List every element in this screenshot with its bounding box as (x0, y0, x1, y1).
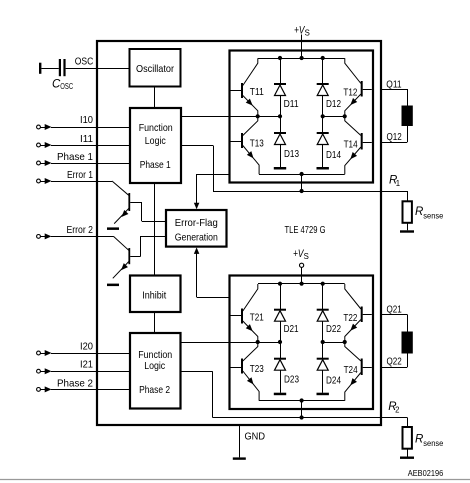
wire function logic 1 current sense (181, 146, 214, 192)
wire bridge 2 to error-flag generation with arrow (194, 247, 230, 297)
svg-text:Error-Flag: Error-Flag (175, 218, 218, 229)
OSC terminal bar (39, 63, 41, 74)
transistor error 2 output (113, 236, 130, 278)
wire load to Q22 (407, 354, 409, 368)
diode D21 (274, 284, 299, 342)
wire base of error transistor 1 to error-flag block (130, 202, 166, 222)
wire bridge 1 to error-flag generation with arrow (194, 174, 230, 209)
wire inhibit to function logic 2 (154, 312, 156, 333)
diode D12 (317, 58, 342, 116)
svg-text:T11: T11 (250, 87, 264, 98)
IC boundary box (97, 41, 381, 425)
transistor T13 (231, 116, 265, 174)
wire sense line R1 (213, 189, 407, 193)
wire function logic 1 to inhibit (154, 183, 156, 276)
svg-text:S: S (304, 252, 309, 261)
label R2 pin (388, 401, 399, 415)
svg-text:OSC: OSC (60, 82, 73, 91)
motor winding load 1 (402, 106, 413, 127)
resistor Rsense 2 (403, 427, 412, 449)
svg-text:I11: I11 (80, 134, 93, 145)
wire R1 to sense resistor (407, 191, 409, 201)
svg-text:Logic: Logic (144, 361, 165, 372)
label R1 pin (389, 174, 400, 188)
transistor T14 (344, 116, 372, 174)
input terminal Error 1 (37, 179, 41, 183)
diode D23 (274, 342, 299, 395)
input terminal I11 (37, 143, 41, 147)
svg-text:Oscillator: Oscillator (136, 64, 175, 75)
ground bar GND (233, 457, 246, 459)
emitter bar of error 2 transistor (107, 284, 119, 287)
wire load to Q12 (407, 126, 409, 142)
wire +Vs terminal to bridge 2 supply rail (301, 267, 303, 283)
label +Vs top (294, 24, 310, 37)
wire output Q22 (382, 367, 407, 369)
wire OSC into oscillator (66, 68, 130, 70)
svg-text:GND: GND (245, 431, 266, 442)
function logic phase 2 block (130, 333, 181, 409)
svg-text:T23: T23 (250, 364, 264, 375)
transistor T21 (231, 284, 265, 342)
svg-text:Q12: Q12 (387, 132, 403, 143)
wire function logic 1 to bridge 1 output node (181, 116, 258, 118)
diode D22 (317, 284, 342, 342)
motor winding load 2 (402, 332, 413, 354)
transistor T12 (343, 58, 371, 116)
H-bridge 2 left output node rail (256, 340, 283, 344)
label Rsense 2 (415, 434, 443, 449)
footer separator line (0, 479, 470, 481)
label +Vs bridge 2 (293, 248, 309, 261)
transistor T22 (343, 284, 371, 342)
svg-text:D14: D14 (326, 150, 341, 161)
wire output Q21 (382, 314, 407, 316)
svg-text:Inhibit: Inhibit (142, 290, 166, 301)
svg-text:T21: T21 (250, 313, 264, 324)
svg-text:OSC: OSC (75, 56, 94, 67)
svg-text:Q22: Q22 (387, 357, 403, 368)
svg-text:D13: D13 (284, 149, 299, 160)
svg-text:TLE 4729 G: TLE 4729 G (285, 225, 326, 236)
svg-text:Phase 2: Phase 2 (139, 385, 170, 396)
svg-text:I10: I10 (80, 115, 93, 126)
transistor T11 (231, 58, 265, 116)
svg-text:Function: Function (139, 123, 173, 134)
svg-text:T12: T12 (343, 88, 357, 99)
diode D24 (317, 342, 342, 395)
ground bar sense 1 (400, 230, 414, 232)
svg-text:Phase 1: Phase 1 (57, 152, 93, 163)
diode D13 (274, 116, 299, 169)
label C osc (52, 78, 73, 91)
svg-text:D24: D24 (326, 376, 341, 387)
svg-text:Logic: Logic (145, 136, 166, 147)
svg-text:Phase 1: Phase 1 (140, 160, 171, 171)
wire sense resistor 1 to ground (407, 223, 409, 231)
wire bridge 1 emitter rail to R1 line (301, 174, 303, 191)
svg-text:D12: D12 (326, 99, 341, 110)
H-bridge 1 supply rail (258, 56, 345, 60)
svg-text:sense: sense (423, 439, 443, 448)
svg-text:R: R (415, 434, 423, 446)
H-bridge 1 enclosure box (230, 51, 374, 183)
svg-text:sense: sense (423, 212, 443, 221)
wire oscillator to function logic 1 (154, 87, 156, 109)
svg-text:D11: D11 (284, 99, 299, 110)
svg-text:T14: T14 (344, 140, 358, 151)
svg-text:Generation: Generation (175, 233, 218, 244)
H-bridge 1 left output node rail (256, 114, 283, 118)
svg-text:AEB02196: AEB02196 (408, 468, 444, 478)
capacitor C osc (59, 59, 66, 76)
svg-text:T22: T22 (343, 313, 357, 324)
svg-text:I20: I20 (80, 342, 93, 353)
wire Q11 down to load (407, 89, 409, 106)
resistor Rsense 1 (403, 201, 412, 223)
svg-text:Phase 2: Phase 2 (57, 378, 93, 389)
input terminal Phase 1 (37, 161, 41, 165)
H-bridge 1 right output node rail (321, 114, 347, 118)
H-bridge 2 enclosure box (230, 276, 374, 410)
diode D11 (274, 58, 299, 116)
input terminal Phase 2 (37, 388, 41, 392)
svg-text:D23: D23 (284, 375, 299, 386)
svg-text:T24: T24 (344, 365, 358, 376)
diode D14 (317, 116, 342, 169)
supply terminal circle bridge 2 (300, 263, 304, 267)
wire function logic 2 current sense (181, 371, 213, 417)
svg-text:2: 2 (395, 406, 399, 415)
wire bridge 2 emitter rail to R2 line (301, 401, 303, 418)
svg-text:R: R (415, 206, 423, 218)
oscillator block (130, 49, 181, 87)
wire OSC terminal to capacitor (41, 68, 58, 70)
wire sense resistor 2 to ground (407, 449, 409, 457)
input terminal I20 (37, 351, 41, 355)
H-bridge 2 emitter rail (259, 398, 345, 402)
emitter bar of error 1 transistor (107, 227, 119, 230)
transistor error 1 output (112, 181, 130, 224)
svg-text:Q21: Q21 (387, 305, 403, 316)
svg-text:S: S (305, 28, 310, 37)
H-bridge 2 supply rail (258, 282, 345, 286)
wire GND stem (239, 425, 241, 457)
ground bar sense 2 (400, 457, 414, 459)
error-flag generation block (166, 210, 227, 247)
wire sense line R2 (213, 415, 408, 419)
svg-text:D21: D21 (284, 324, 299, 335)
wire R2 to sense resistor (407, 418, 409, 428)
H-bridge 1 emitter rail (259, 172, 345, 176)
wire +Vs to bridge 1 supply rail (301, 35, 303, 59)
svg-text:Function: Function (138, 350, 172, 361)
input terminal I21 (37, 369, 41, 373)
input terminal Error 2 (37, 235, 41, 239)
label Rsense 1 (415, 206, 443, 221)
svg-text:I21: I21 (80, 360, 93, 371)
wire output Q12 (382, 142, 407, 144)
inhibit block (130, 276, 181, 313)
input terminal I10 (37, 125, 41, 129)
wire output Q11 (382, 89, 407, 91)
transistor T24 (344, 342, 372, 401)
transistor T23 (231, 342, 265, 401)
svg-text:Error 2: Error 2 (67, 225, 94, 236)
function logic phase 1 block (130, 108, 181, 183)
H-bridge 2 right output node rail (321, 340, 347, 344)
svg-text:Q11: Q11 (386, 80, 402, 91)
svg-text:1: 1 (396, 179, 400, 188)
wire function logic 2 to bridge 2 output node (181, 342, 258, 344)
wire base of error transistor 2 to error-flag block (130, 236, 166, 257)
svg-text:D22: D22 (326, 324, 341, 335)
svg-text:T13: T13 (250, 139, 264, 150)
svg-text:Error 1: Error 1 (67, 170, 93, 181)
wire Q21 down to load (407, 315, 409, 332)
